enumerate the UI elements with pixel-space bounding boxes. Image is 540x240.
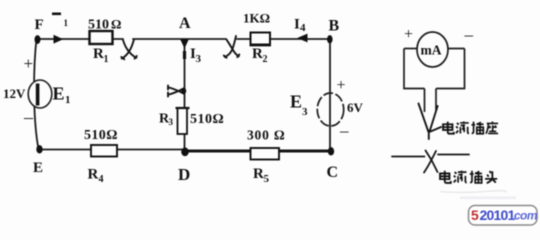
svg-text:–: – — [464, 25, 474, 44]
svg-text:510Ω: 510Ω — [190, 112, 224, 127]
svg-text:6V: 6V — [347, 100, 364, 115]
svg-text:+: + — [24, 54, 34, 73]
svg-text:2: 2 — [263, 54, 268, 65]
svg-text:3: 3 — [196, 53, 202, 65]
svg-text:R: R — [88, 167, 99, 183]
svg-text:+: + — [337, 77, 346, 94]
svg-text:–: – — [23, 107, 34, 127]
svg-text:3: 3 — [169, 117, 174, 127]
svg-text:R: R — [252, 46, 263, 62]
svg-text:E: E — [53, 84, 65, 104]
svg-text:mA: mA — [421, 43, 442, 58]
svg-text:B: B — [329, 18, 340, 35]
svg-text:.com: .com — [511, 209, 538, 223]
svg-text:A: A — [179, 15, 191, 32]
svg-text:510Ω: 510Ω — [84, 128, 118, 143]
svg-text:4: 4 — [99, 174, 104, 185]
svg-text:–: – — [339, 121, 349, 140]
svg-text:1: 1 — [65, 94, 71, 106]
svg-text:5: 5 — [471, 207, 479, 223]
svg-text:3: 3 — [302, 106, 308, 118]
svg-text:F: F — [35, 17, 44, 33]
svg-text:R: R — [93, 46, 104, 62]
svg-text:5: 5 — [264, 173, 270, 185]
svg-text:300 Ω: 300 Ω — [247, 128, 285, 143]
svg-text:E: E — [290, 92, 302, 112]
svg-text:12V: 12V — [3, 86, 26, 101]
svg-text:C: C — [327, 164, 339, 181]
svg-text:510: 510 — [88, 18, 109, 33]
svg-text:+: + — [404, 26, 413, 43]
svg-text:1KΩ: 1KΩ — [243, 11, 270, 26]
svg-text:E: E — [33, 160, 43, 176]
svg-text:D: D — [178, 165, 190, 184]
svg-text:Ω: Ω — [111, 17, 121, 32]
svg-text:4: 4 — [300, 22, 306, 34]
svg-text:1: 1 — [64, 18, 69, 28]
svg-text:R: R — [253, 166, 264, 182]
svg-text:1: 1 — [104, 54, 109, 65]
